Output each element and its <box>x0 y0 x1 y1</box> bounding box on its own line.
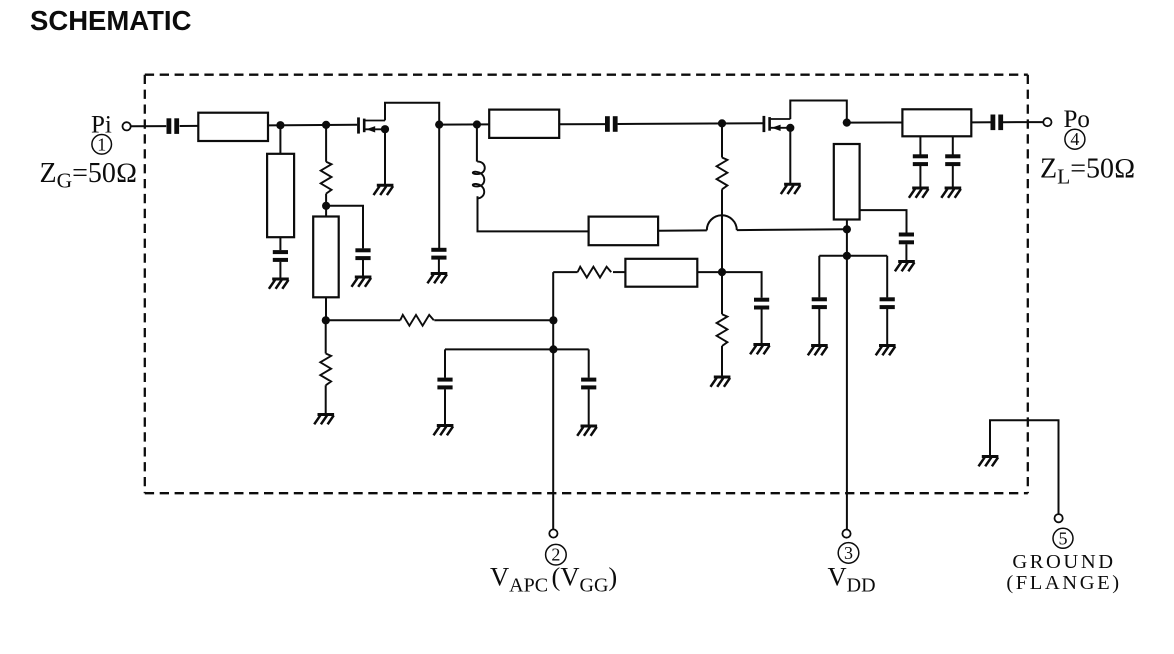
svg-text:3: 3 <box>844 543 853 563</box>
svg-text:VDD: VDD <box>828 561 876 596</box>
svg-text:(FLANGE): (FLANGE) <box>1006 572 1121 594</box>
svg-text:Po: Po <box>1064 106 1090 133</box>
svg-text:Pi: Pi <box>91 112 112 139</box>
svg-text:VAPC(VGG): VAPC(VGG) <box>490 561 617 596</box>
svg-text:SCHEMATIC: SCHEMATIC <box>30 5 192 36</box>
svg-text:ZL=50Ω: ZL=50Ω <box>1040 154 1136 189</box>
svg-text:5: 5 <box>1059 528 1068 548</box>
svg-text:GROUND: GROUND <box>1012 551 1115 573</box>
svg-text:ZG=50Ω: ZG=50Ω <box>40 158 138 193</box>
